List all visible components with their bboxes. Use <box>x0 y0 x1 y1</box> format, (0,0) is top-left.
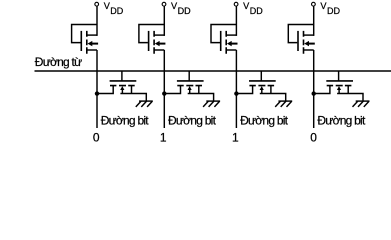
svg-text:1: 1 <box>232 130 239 144</box>
svg-text:0: 0 <box>93 130 100 144</box>
svg-text:Đường từ: Đường từ <box>35 55 82 69</box>
svg-text:1: 1 <box>160 130 167 144</box>
svg-text:0: 0 <box>310 130 317 144</box>
